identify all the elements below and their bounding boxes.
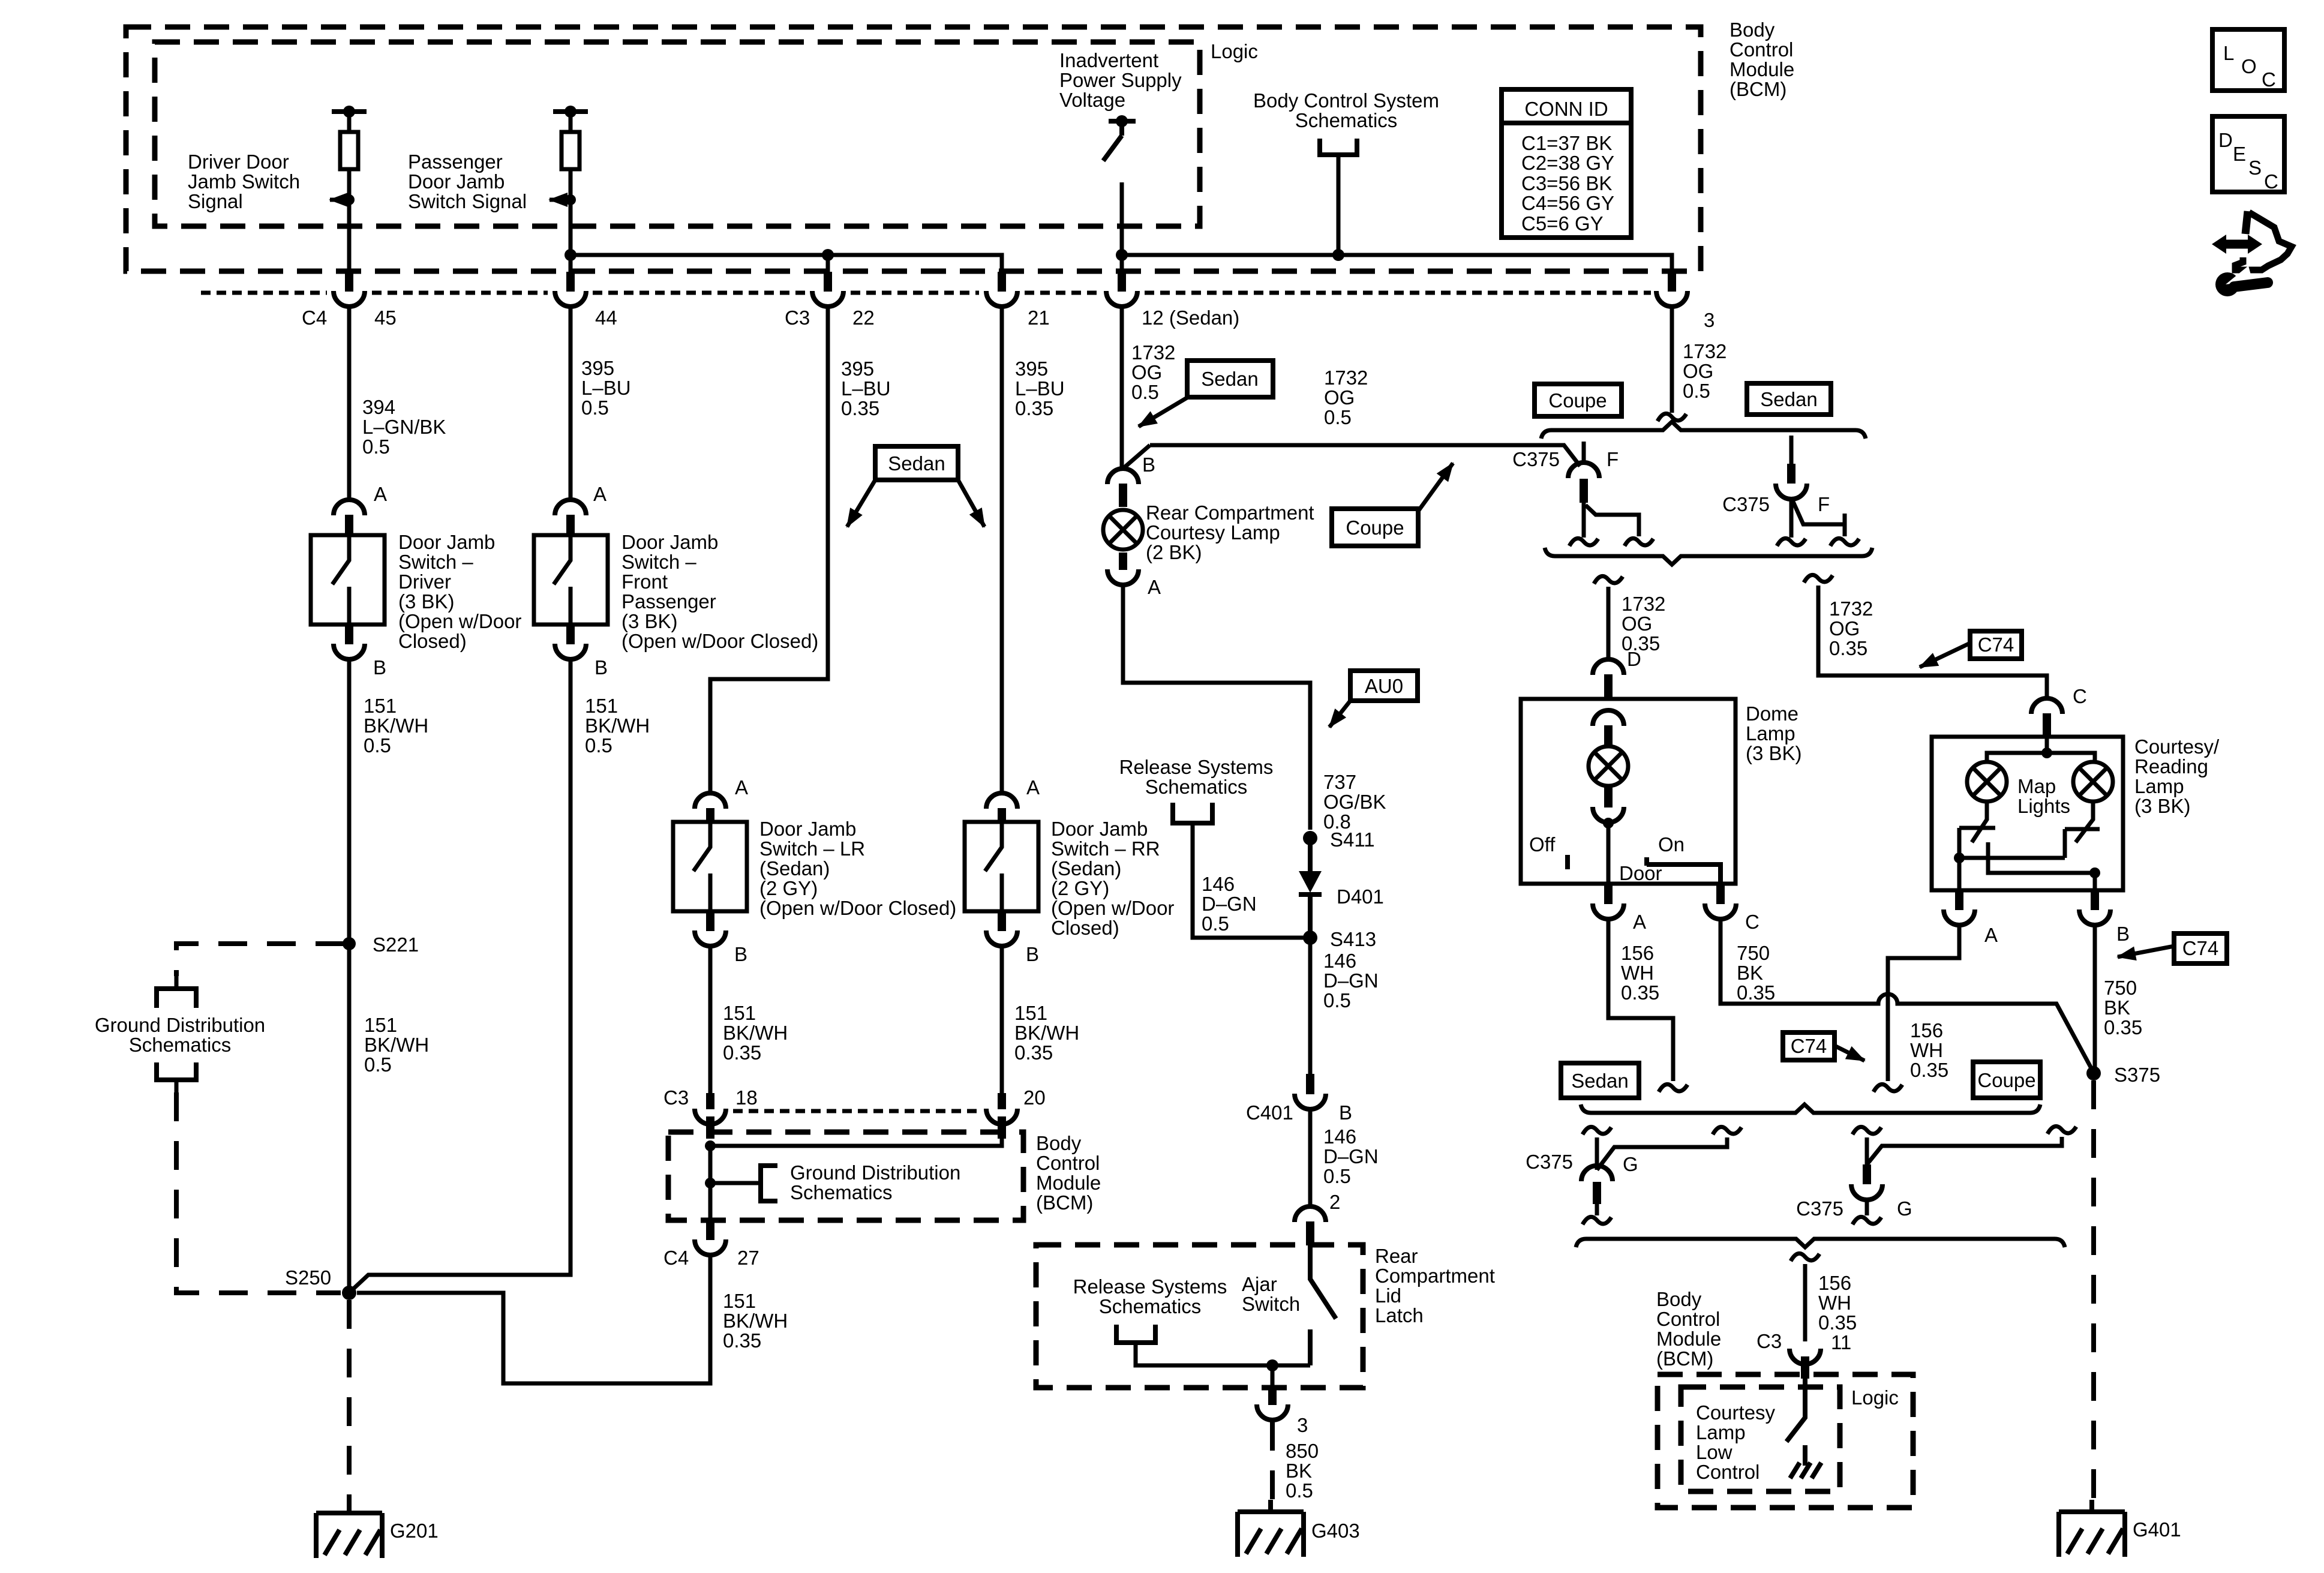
svg-text:On: On (1658, 833, 1685, 855)
svg-text:G: G (1623, 1153, 1638, 1175)
pin stub C4-27 (706, 1220, 714, 1240)
wire end curl at brace (1658, 413, 1686, 421)
pin stub courtesy C (2043, 713, 2051, 737)
connector C4 pin 45 (334, 291, 365, 307)
svg-text:Module: Module (1036, 1172, 1101, 1194)
svg-text:0.5: 0.5 (1131, 381, 1159, 403)
svg-text:Door Jamb: Door Jamb (1051, 818, 1148, 840)
svg-text:0.5: 0.5 (585, 734, 612, 757)
ground G401 (2059, 1500, 2125, 1557)
svg-text:(BCM): (BCM) (1036, 1191, 1093, 1214)
connector C375 pin G sedan (1581, 1166, 1613, 1181)
svg-text:(2 GY): (2 GY) (1051, 877, 1109, 899)
svg-text:27: 27 (737, 1247, 759, 1269)
courtesy/reading lamp box (1932, 737, 2123, 890)
connector A driver (334, 500, 365, 515)
wire 151 BK/WH 0.35 from C4-27 to S250 (357, 1256, 710, 1383)
svg-text:Inadvertent: Inadvertent (1059, 49, 1158, 71)
pin stub C401-B (1306, 1074, 1314, 1094)
svg-text:D401: D401 (1337, 885, 1384, 908)
wire 1732 OG pin 3 down (1670, 307, 1674, 413)
wire feed split to both lamps (1987, 737, 2095, 763)
brace below coupe/sedan variants (1545, 548, 1872, 565)
svg-text:0.5: 0.5 (364, 734, 391, 757)
connector C375 pin F sedan (1776, 484, 1807, 499)
wire drop to C3 pin 22 (826, 255, 830, 273)
svg-text:0.5: 0.5 (581, 397, 609, 419)
svg-text:0.35: 0.35 (1737, 981, 1775, 1004)
svg-text:151: 151 (364, 695, 397, 717)
pin stub courtesy B (2091, 890, 2099, 910)
connector C dome lamp (1705, 903, 1736, 919)
wire bus net 1732 OG (1122, 255, 1672, 273)
BCM outer dashed box (126, 27, 1701, 271)
svg-text:A: A (1633, 911, 1646, 933)
pin C4-45: stub (345, 272, 353, 292)
svg-text:44: 44 (595, 307, 617, 329)
svg-text:146: 146 (1202, 873, 1235, 895)
svg-text:C1=37 BK: C1=37 BK (1521, 132, 1612, 154)
node at ground distribution tap (705, 1178, 716, 1188)
pin stub dome D (1604, 674, 1613, 699)
node on passenger bar (565, 106, 577, 118)
pin stub below C3-18 (706, 1116, 714, 1139)
svg-text:A: A (735, 776, 748, 798)
svg-text:(2 GY): (2 GY) (759, 877, 818, 899)
svg-text:BK/WH: BK/WH (723, 1310, 788, 1332)
svg-text:395: 395 (1015, 358, 1048, 380)
switch courtesy lamp low control (1786, 1379, 1805, 1442)
wire 395 L-BU from pin 21 to RR switch (1000, 307, 1004, 794)
wire harness sedan G (1597, 1137, 1727, 1170)
svg-text:151: 151 (723, 1002, 756, 1024)
pin stub below LR switch (706, 911, 714, 931)
node S411 (1303, 831, 1317, 845)
svg-text:21: 21 (1028, 307, 1050, 329)
connector pin 3 (1656, 291, 1688, 307)
connector C4 pin 44 (555, 291, 586, 307)
svg-text:BK/WH: BK/WH (585, 715, 650, 737)
svg-text:3: 3 (1297, 1414, 1308, 1436)
svg-text:Rear Compartment: Rear Compartment (1146, 502, 1314, 524)
svg-text:C375: C375 (1526, 1151, 1573, 1173)
svg-text:Voltage: Voltage (1059, 89, 1125, 111)
pin stub lamp top (1119, 484, 1127, 507)
svg-text:Compartment: Compartment (1375, 1265, 1495, 1287)
door jamb switch LR box (673, 822, 747, 911)
svg-text:B: B (1026, 943, 1039, 965)
wire exit curl to dome lamp (1594, 576, 1623, 584)
svg-text:Door Jamb: Door Jamb (621, 531, 718, 553)
svg-text:151: 151 (364, 1014, 397, 1036)
svg-text:Lights: Lights (2017, 795, 2070, 817)
pin stub into driver switch (345, 515, 353, 535)
svg-text:Control: Control (1730, 38, 1793, 61)
svg-text:0.35: 0.35 (723, 1329, 761, 1352)
node dome switch pole (1603, 818, 1614, 828)
connector pin 2 latch (1295, 1206, 1326, 1222)
wire 156 WH from dome A to sedan brace (1608, 920, 1673, 1081)
svg-text:F: F (1818, 493, 1830, 515)
wire exit curl to courtesy lamp (1804, 575, 1833, 583)
svg-text:0.5: 0.5 (1286, 1479, 1313, 1502)
wire switch to bus (1120, 182, 1124, 273)
pin stub dome A (1604, 884, 1613, 904)
svg-text:Schematics: Schematics (790, 1181, 893, 1203)
svg-text:Body Control System: Body Control System (1253, 89, 1439, 112)
node switch pivot (1116, 115, 1128, 127)
svg-text:Passenger: Passenger (621, 590, 716, 613)
svg-text:C375: C375 (1512, 448, 1560, 470)
svg-text:B: B (594, 656, 608, 679)
svg-text:3: 3 (1704, 309, 1715, 331)
boxed label Coupe (bottom) (1973, 1062, 2040, 1098)
bracket release systems schematics lower (1116, 1325, 1155, 1343)
svg-text:0.5: 0.5 (364, 1053, 392, 1076)
svg-text:Schematics: Schematics (1295, 109, 1398, 131)
BCM logic inner dashed box (155, 42, 1200, 226)
svg-text:C74: C74 (1978, 634, 2014, 656)
svg-text:F: F (1607, 448, 1619, 470)
svg-text:Lamp: Lamp (1746, 722, 1795, 745)
wire 156 WH courtesy A to coupe brace (1888, 926, 1959, 1081)
wire end curl coupe (1873, 1084, 1902, 1092)
svg-text:G403: G403 (1311, 1520, 1360, 1542)
svg-text:0.5: 0.5 (1323, 1165, 1351, 1187)
svg-text:Courtesy Lamp: Courtesy Lamp (1146, 521, 1280, 544)
svg-text:A: A (1026, 776, 1040, 798)
connector C3 pin 20 (986, 1109, 1017, 1124)
wire 1732 OG 0.5 horizontal to coupe C375 (1150, 445, 1580, 466)
svg-text:Body: Body (1656, 1288, 1702, 1310)
svg-text:737: 737 (1323, 771, 1356, 793)
svg-text:Off: Off (1529, 833, 1556, 855)
BCM lower-left dashed box (668, 1132, 1023, 1220)
svg-text:Switch –: Switch – (398, 551, 473, 573)
wire 156 WH to C3-11 (1803, 1264, 1807, 1341)
wire pin drop to brace (1789, 499, 1794, 538)
svg-text:0.35: 0.35 (1014, 1041, 1053, 1064)
wire exit curl to BCM (1791, 1253, 1819, 1261)
svg-text:A: A (374, 483, 387, 505)
wire bracket to latch output (1136, 1343, 1310, 1365)
pin 21: stub (998, 272, 1006, 292)
bracket ground distribution bottom (157, 1062, 196, 1080)
wire resistor down across logic box (347, 169, 352, 273)
wire 151 BK/WH driver down (347, 660, 352, 1293)
svg-text:12 (Sedan): 12 (Sedan) (1142, 307, 1239, 329)
ajar switch blade (1310, 1245, 1336, 1319)
dashed wire S250 to G201 (347, 1300, 352, 1501)
connector C courtesy/reading lamp (2031, 698, 2062, 714)
lamp rear compartment courtesy (1103, 510, 1143, 550)
lamp map light right (2073, 762, 2113, 801)
bracket ground distribution top (157, 989, 196, 1008)
pin 3: stub (1668, 272, 1676, 292)
wire 750 BK from dome C with hop (1721, 920, 2093, 1071)
svg-text:18: 18 (735, 1086, 758, 1109)
svg-text:(3 BK): (3 BK) (2134, 795, 2191, 817)
wire bus net 395 L-BU (571, 255, 1002, 273)
svg-text:394: 394 (362, 396, 395, 418)
pin stub to lamp (1604, 725, 1613, 748)
svg-text:0.35: 0.35 (723, 1041, 761, 1064)
svg-text:1732: 1732 (1683, 340, 1727, 362)
pin stub lamp bottom (1119, 553, 1127, 570)
connector B passenger (555, 644, 586, 659)
wire left output to right contact (1959, 829, 2100, 858)
svg-text:Courtesy/: Courtesy/ (2134, 736, 2220, 758)
svg-text:C: C (2073, 685, 2087, 707)
svg-text:C4=56 GY: C4=56 GY (1521, 192, 1614, 214)
bracket ground distribution schematics (761, 1166, 777, 1201)
pin stub latch pin 3 (1268, 1387, 1277, 1405)
dashed wire S221 to ground distribution bracket (176, 944, 344, 976)
svg-text:G401: G401 (2133, 1518, 2181, 1541)
lamp dome (1589, 746, 1628, 786)
svg-text:(2 BK): (2 BK) (1146, 541, 1202, 563)
brace above C375 G variants (1581, 1104, 2040, 1113)
connector A RR (986, 793, 1017, 809)
arrow driver door jamb switch signal (330, 198, 349, 202)
connector socket top inside dome (1593, 710, 1624, 726)
svg-text:Signal: Signal (188, 190, 243, 212)
svg-text:BK: BK (2104, 996, 2130, 1019)
svg-text:BK/WH: BK/WH (364, 1034, 429, 1056)
svg-text:Schematics: Schematics (1099, 1295, 1202, 1317)
boxed label Sedan with arrow to 1732 wire (1139, 361, 1273, 427)
svg-text:Front: Front (621, 571, 668, 593)
wire end curl sedan (1659, 1084, 1688, 1092)
wire pin drop to brace (1582, 503, 1586, 538)
node right output (2089, 867, 2100, 878)
svg-text:(Open w/Door: (Open w/Door (398, 610, 521, 632)
connector A courtesy/reading lamp (1944, 909, 1975, 925)
brace top coupe/sedan split (1541, 422, 1866, 439)
svg-text:0.5: 0.5 (1324, 406, 1352, 428)
svg-text:AU0: AU0 (1365, 675, 1403, 697)
wire tap to ground distribution bracket (710, 1181, 761, 1185)
node at pin 18 join (705, 1140, 716, 1151)
svg-text:B: B (373, 656, 386, 679)
hanger curl right (2047, 1126, 2076, 1134)
switch blade passenger (554, 535, 571, 625)
svg-text:Control: Control (1656, 1308, 1720, 1330)
sedan C375-F: lead from brace (1789, 436, 1794, 465)
bracket stem bottom (175, 1080, 179, 1092)
wire S411 to diode (1308, 838, 1313, 871)
switch blade RR (985, 822, 1002, 911)
svg-text:0.5: 0.5 (1202, 912, 1229, 935)
svg-text:0.5: 0.5 (1683, 380, 1710, 402)
svg-text:L–GN/BK: L–GN/BK (362, 416, 446, 438)
svg-text:CONN ID: CONN ID (1524, 98, 1608, 120)
wire lamp A to 737 corner (1123, 585, 1310, 830)
wire end curl (1830, 538, 1859, 546)
svg-text:750: 750 (2104, 977, 2137, 999)
svg-text:(Sedan): (Sedan) (759, 857, 830, 879)
svg-text:156: 156 (1910, 1019, 1943, 1041)
wire 146 D-GN below S413 (1308, 938, 1313, 1074)
svg-text:Coupe: Coupe (1977, 1069, 2035, 1091)
courtesy lamp low control inner dashed box (1681, 1387, 1840, 1491)
svg-text:Body: Body (1730, 19, 1775, 41)
svg-text:S221: S221 (373, 933, 419, 956)
pin stub C375 F coupe (1580, 479, 1588, 503)
door jamb switch RR box (965, 822, 1038, 911)
svg-text:B: B (1339, 1101, 1352, 1124)
connector socket bottom inside dome (1593, 807, 1624, 822)
svg-text:850: 850 (1286, 1440, 1319, 1462)
pin stub into LR switch (706, 808, 714, 822)
svg-text:(BCM): (BCM) (1730, 78, 1786, 100)
svg-text:146: 146 (1323, 950, 1356, 972)
wire pin to brace (1595, 1204, 1599, 1215)
svg-text:Jamb Switch: Jamb Switch (188, 170, 300, 193)
wire 146 D-GN to latch pin 2 (1308, 1110, 1313, 1206)
pin stub below driver switch (345, 625, 353, 644)
svg-text:(Sedan): (Sedan) (1051, 857, 1121, 879)
svg-text:(3 BK): (3 BK) (621, 610, 678, 632)
svg-text:Rear: Rear (1375, 1245, 1418, 1267)
pin stub below RR switch (998, 911, 1006, 931)
svg-text:C401: C401 (1246, 1101, 1293, 1124)
connector D dome lamp (1593, 659, 1624, 675)
dome lamp box (1521, 699, 1736, 884)
wire 151 BK/WH passenger to S250 (351, 660, 571, 1291)
svg-text:C: C (2262, 68, 2276, 91)
svg-text:C: C (2264, 170, 2278, 193)
svg-text:Sedan: Sedan (1571, 1070, 1628, 1092)
svg-text:Door Jamb: Door Jamb (759, 818, 856, 840)
svg-text:Switch – RR: Switch – RR (1051, 837, 1160, 860)
boxed label C74 with arrow (right) (2118, 933, 2227, 963)
svg-text:Release Systems: Release Systems (1073, 1275, 1227, 1298)
sedan C375-G: hanger curl left (1583, 1127, 1611, 1134)
svg-text:WH: WH (1621, 962, 1654, 984)
dashed wire 850 BK to G403 (1270, 1422, 1275, 1500)
hanger curl right (1713, 1127, 1742, 1134)
svg-text:Low: Low (1696, 1441, 1733, 1463)
dotted connector line segments top row (201, 291, 327, 295)
svg-text:D–GN: D–GN (1323, 1145, 1379, 1167)
wire diode to S413 (1308, 894, 1313, 938)
wire 151 BK/WH LR to C3-18 (708, 947, 713, 1093)
boxed label C74 with arrow (center) (1783, 1032, 1864, 1061)
pin stub courtesy A (1955, 890, 1963, 910)
switch blade driver (332, 535, 349, 625)
wire lower crossover (1988, 842, 2095, 890)
svg-text:S: S (2248, 157, 2262, 179)
svg-text:OG: OG (1683, 360, 1713, 382)
svg-text:(Open w/Door Closed): (Open w/Door Closed) (759, 897, 956, 919)
svg-text:Coupe: Coupe (1548, 389, 1607, 412)
svg-text:Ground Distribution: Ground Distribution (95, 1014, 265, 1036)
dashed wire S375 to G401 (2091, 1080, 2096, 1500)
wire 1732 OG 0.35 to courtesy C (1818, 586, 2047, 698)
car direction icon with double arrow and wrench (2212, 211, 2292, 296)
svg-text:146: 146 (1323, 1125, 1356, 1148)
wire stem to body control system schematics bracket (1337, 155, 1341, 255)
svg-text:Driver Door: Driver Door (188, 151, 289, 173)
svg-text:Switch Signal: Switch Signal (408, 190, 527, 212)
pin stub C3-20 (998, 1093, 1006, 1109)
svg-text:BK/WH: BK/WH (723, 1022, 788, 1044)
svg-text:C74: C74 (1791, 1035, 1827, 1057)
svg-text:0.35: 0.35 (1829, 637, 1867, 659)
pin C3-22: stub (824, 272, 832, 292)
connector C4 pin 27 (695, 1239, 726, 1255)
pin 12: stub (1118, 272, 1126, 292)
lamp map light left (1967, 762, 2007, 801)
svg-text:C5=6 GY: C5=6 GY (1521, 212, 1604, 235)
connector B RR (986, 930, 1017, 946)
svg-text:C375: C375 (1796, 1197, 1843, 1220)
wire 750 BK courtesy B to S375 (2093, 926, 2097, 1071)
svg-text:Coupe: Coupe (1346, 517, 1404, 539)
svg-text:Control: Control (1036, 1152, 1100, 1174)
svg-text:Courtesy: Courtesy (1696, 1401, 1776, 1424)
svg-text:Logic: Logic (1851, 1386, 1899, 1409)
connector B driver (334, 644, 365, 659)
switch blade (1103, 122, 1122, 161)
svg-text:1732: 1732 (1324, 367, 1368, 389)
svg-text:L: L (2223, 42, 2234, 64)
node passenger signal tap (565, 194, 576, 205)
connector C401 pin B (1295, 1094, 1326, 1109)
svg-text:Release Systems: Release Systems (1119, 756, 1274, 778)
connector C375 pin G coupe (1851, 1184, 1882, 1200)
svg-text:C4: C4 (302, 307, 327, 329)
LOC box icon (2212, 29, 2284, 91)
svg-text:1732: 1732 (1131, 341, 1175, 364)
connector A dome lamp (1593, 903, 1624, 919)
connector C3 pin 18 (695, 1109, 726, 1124)
boxed label AU0 with arrow (1329, 671, 1418, 727)
svg-text:BK/WH: BK/WH (364, 715, 428, 737)
svg-text:B: B (734, 943, 747, 965)
switch blade LR (693, 822, 710, 911)
pin stub below passenger switch (566, 625, 575, 644)
wire resistor down to bus (569, 169, 573, 273)
wire 1732 OG 0.35 to dome D (1607, 587, 1611, 659)
svg-text:OG: OG (1131, 361, 1162, 383)
svg-text:45: 45 (374, 307, 397, 329)
pin stub below C3-20 (998, 1116, 1006, 1139)
svg-text:D: D (2218, 129, 2233, 151)
svg-text:Schematics: Schematics (1145, 776, 1248, 798)
boxed label C74 with arrow (1920, 631, 2022, 667)
wire 394 L-GN/BK driver to switch A (347, 307, 352, 500)
pin stub below C3-11 (1801, 1356, 1809, 1379)
svg-text:C2=38 GY: C2=38 GY (1521, 152, 1614, 174)
brace below C375 G variants (1576, 1239, 2065, 1247)
svg-text:Lid: Lid (1375, 1284, 1401, 1307)
node bus at C3-22 drop (822, 249, 834, 261)
wire harness side routed (1586, 505, 1639, 536)
svg-text:151: 151 (723, 1290, 756, 1312)
svg-text:Closed): Closed) (1051, 917, 1119, 939)
svg-text:G201: G201 (390, 1520, 439, 1542)
connector B rear compartment courtesy lamp (1107, 469, 1139, 484)
connector B LR (695, 930, 726, 946)
left fixed contact (1959, 828, 1995, 890)
svg-text:Door Jamb: Door Jamb (408, 170, 505, 193)
switch inadvertent power supply: top bar (1109, 119, 1136, 124)
svg-text:A: A (1984, 924, 1998, 946)
driver branch: top bar (332, 109, 367, 114)
off contact tick (1565, 855, 1570, 869)
